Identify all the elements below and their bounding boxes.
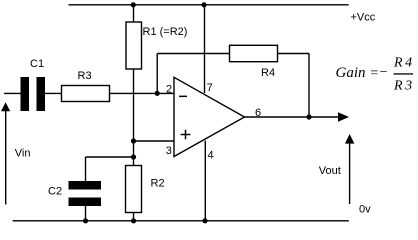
svg-text:4: 4 — [208, 150, 214, 162]
svg-text:Gain: Gain — [336, 65, 366, 81]
resistor R3 — [62, 86, 110, 102]
formula fraction bar — [394, 73, 414, 74]
svg-text:Vin: Vin — [15, 148, 31, 160]
svg-text:R1 (=R2): R1 (=R2) — [143, 26, 188, 38]
wire input to C1 — [4, 92, 21, 94]
wire R1 bottom lead down to R2 — [133, 69, 135, 166]
wire 0v bottom rail — [13, 220, 349, 222]
capacitor C2 plate top — [69, 181, 102, 190]
svg-text:C1: C1 — [30, 58, 44, 70]
wire +Vcc top rail — [69, 4, 349, 6]
wire pin 7 to +Vcc — [204, 5, 206, 93]
op-amp minus input sign — [179, 96, 187, 98]
svg-text:−: − — [379, 65, 388, 80]
svg-text:7: 7 — [207, 82, 213, 94]
output arrowhead — [338, 112, 349, 121]
wire feedback top to R4 — [157, 53, 229, 55]
wire R4 right lead — [278, 53, 310, 55]
wire R3 to pin 2 — [110, 92, 174, 94]
svg-text:Vout: Vout — [319, 165, 341, 177]
svg-text:R4: R4 — [393, 56, 415, 71]
capacitor C2 plate bottom — [69, 198, 102, 207]
wire R1 top lead — [133, 5, 135, 22]
svg-text:2: 2 — [166, 83, 172, 95]
node junction bias / pin 3 — [131, 138, 136, 143]
resistor R1 — [126, 22, 142, 69]
wire C2 top lead — [85, 157, 87, 181]
Vin arrowhead — [1, 102, 10, 111]
wire Vin indicator line — [5, 110, 7, 205]
resistor R4 — [230, 45, 278, 61]
wire feedback riser from pin 2 node — [156, 54, 158, 94]
svg-text:0v: 0v — [359, 204, 371, 216]
wire R2 bottom lead — [133, 213, 135, 221]
wire pin 3 input — [134, 140, 174, 142]
node junction pin 2 / feedback — [155, 91, 160, 96]
resistor R2 — [126, 166, 142, 213]
Vout arrowhead — [345, 134, 354, 144]
wire feedback down to output — [308, 54, 310, 118]
node junction bias / C2 — [131, 154, 136, 159]
capacitor C1 plate left — [21, 77, 30, 111]
node junction top rail / R1 — [131, 2, 136, 7]
wire C1 to R3 — [45, 92, 62, 94]
op-amp U1 — [174, 77, 245, 156]
wire pin 4 to 0v — [204, 141, 206, 221]
wire output from op-amp — [245, 116, 340, 118]
wire C2 to bias node — [86, 156, 134, 158]
svg-text:C2: C2 — [48, 186, 62, 198]
svg-text:R3: R3 — [78, 70, 92, 82]
svg-text:+Vcc: +Vcc — [351, 12, 376, 24]
wire Vout indicator line — [349, 142, 351, 204]
svg-text:R4: R4 — [261, 67, 275, 79]
svg-text:=: = — [370, 66, 379, 81]
svg-text:R2: R2 — [151, 178, 165, 190]
svg-text:3: 3 — [166, 145, 172, 157]
svg-text:R3: R3 — [393, 78, 415, 93]
wire C2 bottom lead — [85, 206, 87, 221]
node junction C2 / 0v rail — [83, 218, 88, 223]
svg-text:6: 6 — [255, 107, 261, 119]
op-amp plus input sign — [181, 130, 191, 139]
node junction top rail / pin 7 — [201, 2, 206, 7]
node junction pin 4 / 0v rail — [202, 218, 207, 223]
capacitor C1 plate right — [37, 77, 46, 111]
node junction R2 / 0v rail — [131, 218, 136, 223]
node junction feedback / output — [306, 114, 311, 119]
